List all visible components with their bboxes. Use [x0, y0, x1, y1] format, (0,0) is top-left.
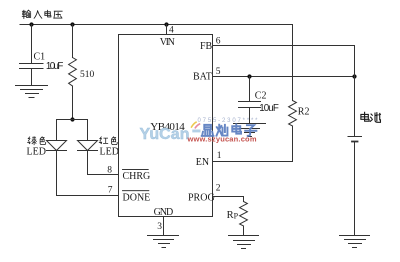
resistor 510 [69, 58, 77, 87]
wire green LED to pin7 [57, 151, 119, 196]
svg-text:PROG: PROG [188, 192, 215, 203]
ground under Rp [229, 236, 259, 249]
ground under battery [340, 236, 370, 248]
label 输入电压 input voltage [22, 10, 62, 18]
watermark sparkle pink [195, 124, 199, 128]
wire R2 bottom to EN [213, 126, 293, 162]
ground under C2 [234, 124, 266, 137]
wire C2 branch [249, 77, 251, 102]
svg-text:EN: EN [196, 157, 209, 168]
ground under pin3 [148, 236, 179, 248]
wire C1 branch [31, 25, 33, 64]
wire pin6 FB to battery [213, 45, 355, 47]
wire top VIN rail [20, 24, 293, 26]
IC U1 YB4014 body [119, 35, 213, 217]
label 绿色 green [28, 137, 46, 145]
label 电池 battery [361, 112, 381, 122]
svg-text:6: 6 [216, 37, 221, 47]
LED red [78, 141, 98, 151]
svg-text:FB: FB [200, 41, 213, 52]
svg-text:VIN: VIN [160, 37, 175, 48]
battery cell [348, 137, 362, 142]
watermark 显灿电子 [202, 124, 257, 136]
svg-text:GND: GND [154, 207, 174, 218]
svg-text:3: 3 [157, 222, 162, 232]
wire pin3 GND stub [163, 217, 165, 236]
wire 510 bottom to LED node [72, 86, 74, 120]
wire battery to ground [354, 142, 356, 236]
svg-text:2: 2 [216, 184, 221, 194]
svg-text:510: 510 [80, 70, 95, 80]
watermark sparkle yellow [192, 122, 197, 127]
node junction C2 [247, 74, 251, 78]
node junction C1 [29, 22, 33, 26]
svg-text:0755-2307****: 0755-2307**** [198, 118, 259, 124]
svg-text:7: 7 [108, 186, 113, 196]
svg-text:RP: RP [227, 210, 239, 221]
svg-text:www.szyucan.com: www.szyucan.com [187, 135, 257, 144]
resistor R2 [289, 101, 297, 127]
svg-text:10uF: 10uF [46, 61, 63, 72]
LED green [47, 141, 67, 151]
capacitor C1 [20, 64, 44, 69]
wire pin5 BAT to battery [213, 76, 355, 78]
svg-text:8: 8 [107, 165, 112, 175]
svg-text:CHRG: CHRG [123, 171, 151, 182]
resistor Rp [240, 202, 248, 227]
svg-text:C1: C1 [34, 52, 46, 63]
wire battery drop [354, 46, 356, 137]
label DONE with overline [123, 191, 151, 204]
watermark hyphen [192, 130, 200, 133]
svg-text:C2: C2 [255, 91, 267, 102]
node junction battery [352, 74, 356, 78]
svg-text:BAT: BAT [193, 72, 212, 83]
ground under C1 [16, 86, 48, 98]
label 红色 red [99, 137, 117, 145]
wire red LED to pin8 [88, 151, 119, 175]
label CHRG with overline [123, 170, 151, 183]
wire 510 top [72, 25, 74, 58]
wire VIN rail corner down to R2 [292, 25, 294, 101]
node junction 510 [70, 22, 74, 26]
node junction VIN pin4 [164, 22, 168, 26]
wire pin2 PROG to Rp [213, 197, 244, 202]
svg-text:YuCan: YuCan [140, 126, 190, 143]
capacitor C2 [239, 102, 261, 108]
svg-text:DONE: DONE [123, 192, 151, 203]
svg-text:R2: R2 [298, 107, 310, 118]
svg-text:4: 4 [169, 25, 174, 35]
wire red LED drop [87, 120, 89, 141]
svg-text:5: 5 [216, 67, 221, 77]
wire green LED drop [56, 120, 58, 141]
wire C1 to ground [31, 69, 33, 86]
wire pin4 stub [166, 25, 168, 35]
svg-text:10uF: 10uF [259, 103, 279, 114]
svg-text:LED: LED [27, 147, 46, 158]
node LED junction [70, 117, 74, 121]
svg-text:1: 1 [217, 151, 222, 161]
wire C2 to ground [249, 108, 251, 124]
svg-text:LED: LED [100, 147, 119, 158]
wire Rp to ground [243, 226, 245, 236]
wire LED anode rail [57, 119, 88, 121]
